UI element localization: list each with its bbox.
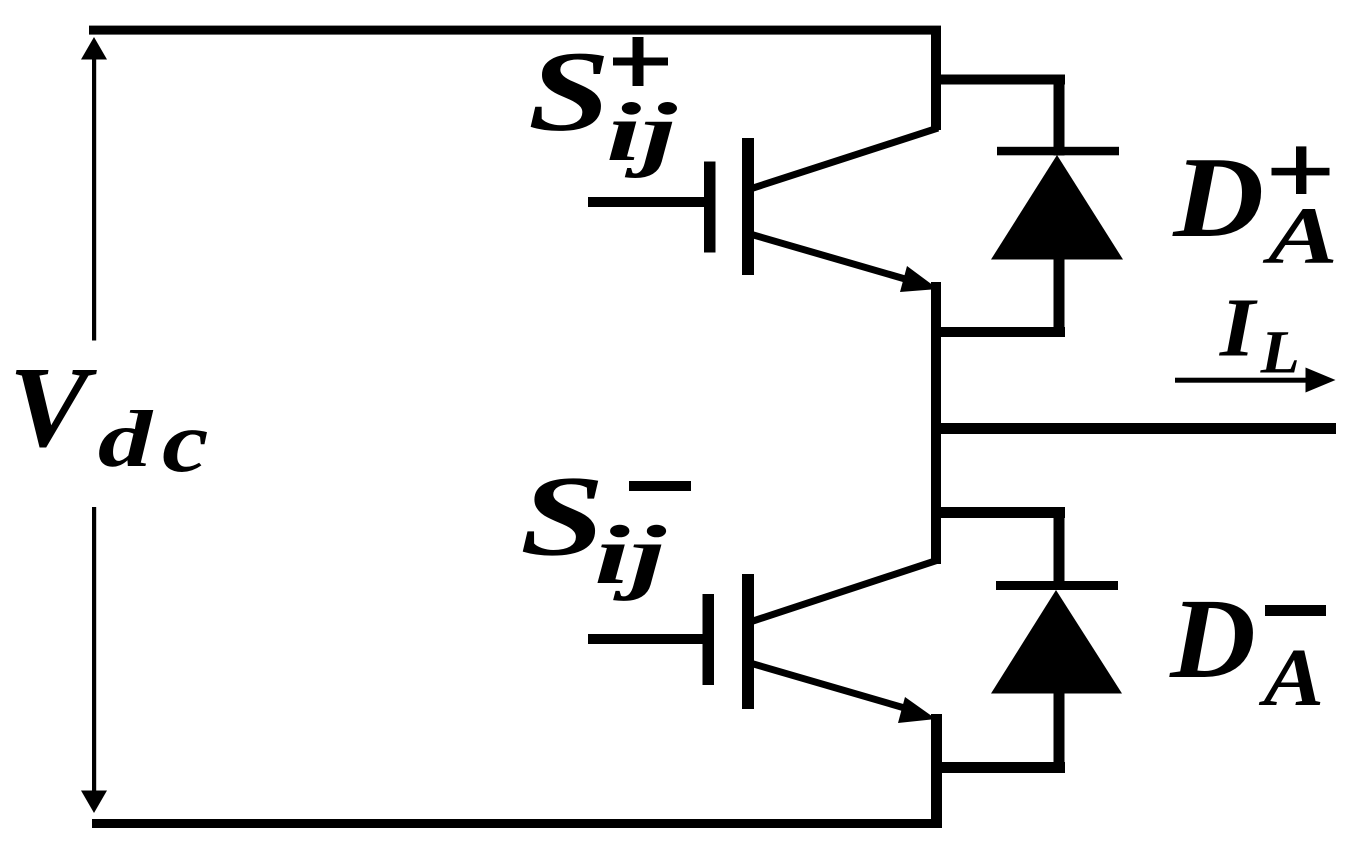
wire output line to load xyxy=(936,423,1336,434)
transistor S_ij+ emitter slant with arrow xyxy=(750,234,938,292)
svg-text:ij: ij xyxy=(594,509,667,602)
svg-text:D: D xyxy=(1172,134,1264,262)
transistor S_ij+ gate bar xyxy=(704,162,716,253)
wire branch top rail node to D_A+ cathode xyxy=(931,75,1065,85)
transistor S_ij- (bottom IGBT) gate lead xyxy=(588,634,709,644)
label I_L with current arrow xyxy=(1175,282,1336,393)
transistor S_ij+ (top IGBT) gate lead xyxy=(588,197,709,207)
wire midpoint vertical xyxy=(931,282,941,564)
Vdc measurement arrow (double-headed) xyxy=(81,37,107,813)
transistor S_ij+ collector slant xyxy=(750,128,938,189)
diode D_A+ body (filled triangle) xyxy=(991,155,1123,260)
wire branch midpoint to D_A- cathode xyxy=(931,507,1065,518)
label D_A- xyxy=(1169,575,1326,723)
svg-text:d: d xyxy=(98,394,154,484)
svg-text:V: V xyxy=(9,344,98,471)
svg-text:A: A xyxy=(1262,190,1338,281)
svg-text:S: S xyxy=(520,453,605,580)
wire D_A+ cathode lead xyxy=(1054,75,1065,156)
svg-text:ij: ij xyxy=(606,86,677,179)
wire branch D_A+ anode to midpoint xyxy=(931,327,1065,337)
diode D_A+ cathode bar xyxy=(997,147,1119,156)
wire bottom DC- rail xyxy=(92,819,941,828)
diode D_A- body (filled triangle) xyxy=(991,590,1122,694)
svg-text:S: S xyxy=(528,28,610,155)
wire D_A+ anode lead xyxy=(1054,259,1065,337)
svg-text:I: I xyxy=(1219,282,1259,375)
svg-text:L: L xyxy=(1260,320,1300,387)
svg-text:c: c xyxy=(162,393,209,490)
label Vdc xyxy=(9,344,209,490)
wire D_A- cathode lead xyxy=(1054,507,1065,590)
wire bottom emitter stub xyxy=(931,714,942,828)
wire D_A- anode lead xyxy=(1054,693,1065,773)
svg-text:D: D xyxy=(1169,575,1256,702)
transistor S_ij- body bar xyxy=(742,574,754,709)
transistor S_ij- gate bar xyxy=(703,594,715,685)
wire branch D_A- anode to emitter stub xyxy=(937,762,1065,773)
label D_A+ xyxy=(1172,134,1338,281)
diode D_A- cathode bar xyxy=(996,581,1118,590)
wire top DC+ rail xyxy=(89,26,941,35)
wire vertical stub from top rail to Q1 collector xyxy=(931,26,941,130)
transistor S_ij- emitter slant with arrow xyxy=(750,663,936,723)
transistor S_ij- collector slant xyxy=(750,560,938,622)
label S_ij- xyxy=(520,453,691,603)
svg-text:A: A xyxy=(1258,631,1324,723)
label S_ij+ xyxy=(528,28,678,179)
transistor S_ij+ body bar xyxy=(742,138,754,275)
